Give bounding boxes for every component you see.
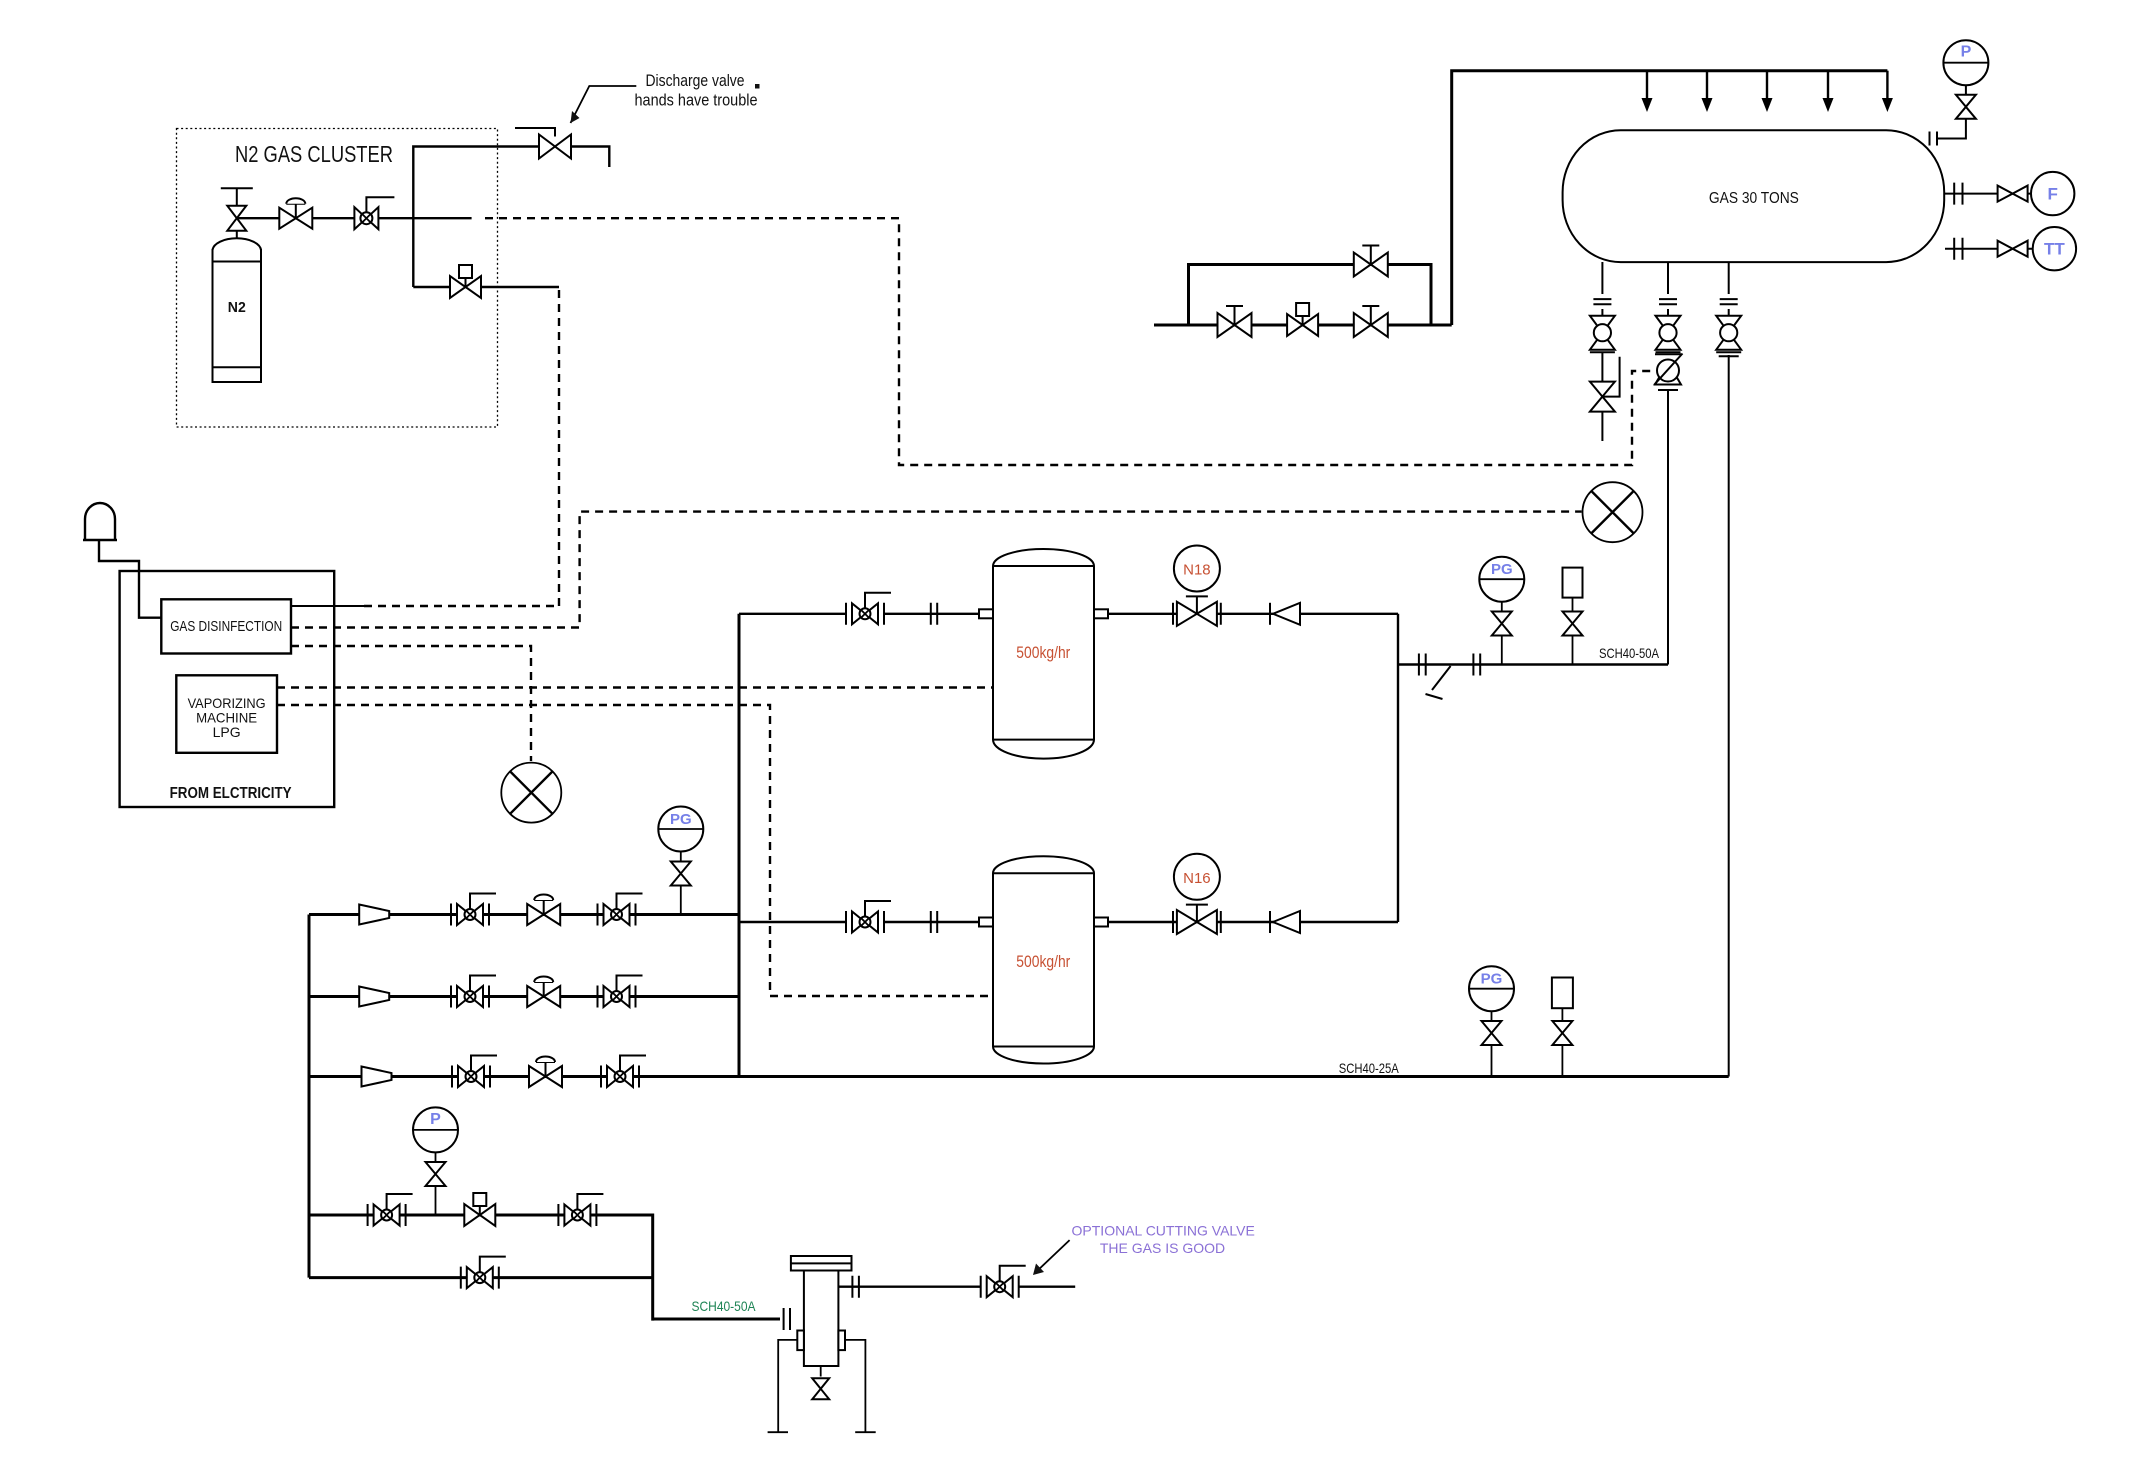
wire P gauge to tank with flange — [1930, 85, 1966, 145]
flange separator outlet — [852, 1276, 859, 1298]
relief valve on drop 1 — [1590, 382, 1615, 412]
globe valve V2 — [279, 198, 312, 229]
N2 gas cluster dotted boundary box — [177, 129, 498, 428]
optional cutting ball valve — [981, 1266, 1026, 1298]
wire tank to TT with flange and valve — [1945, 238, 2033, 260]
cylinder valve V1 with T handle — [221, 188, 253, 231]
wire tank to F with flange and valve — [1945, 183, 2031, 205]
wire top vaporizer inlet — [739, 613, 980, 615]
valve N16 with T stem — [1173, 905, 1221, 934]
wire manifold row 1 — [309, 913, 739, 916]
bypass valve B3 with T handle — [1354, 306, 1388, 337]
valve under row1 PG — [671, 862, 691, 886]
wire tank drop 3 — [1728, 262, 1730, 1077]
wire row1 PG stem — [680, 852, 682, 915]
reducer cone row 1 — [359, 905, 389, 925]
nozzle bottom vessel inlet — [979, 918, 993, 927]
ball valve top inlet — [846, 593, 891, 625]
gas disinfection box — [161, 599, 291, 653]
ball valve row 1 b — [598, 894, 643, 926]
wire vapor collection line — [1398, 614, 1668, 922]
pressure gauge PG row 1 — [658, 807, 703, 852]
alarm horn device — [83, 503, 117, 540]
svg-text:Discharge valve: Discharge valve — [646, 71, 745, 90]
solenoid valve V4 — [450, 265, 481, 298]
storage tank GAS 30 TONS — [1563, 130, 1945, 262]
globe valve row 1 — [527, 895, 560, 926]
spray arrow 3 — [1762, 71, 1773, 112]
svg-text:SCH40-50A: SCH40-50A — [1599, 645, 1660, 661]
svg-text:TT: TT — [2044, 240, 2065, 259]
svg-text:P: P — [430, 1111, 441, 1128]
shutoff globe valve drop 3 — [1716, 316, 1741, 357]
leader arrow to cutting valve — [1033, 1240, 1070, 1275]
flow instrument F — [2031, 172, 2074, 215]
valve N18 with T stem — [1173, 596, 1221, 625]
wire supply line B — [309, 1276, 653, 1279]
flange on drop 2 — [1659, 299, 1677, 304]
svg-text:500kg/hr: 500kg/hr — [1016, 643, 1070, 662]
pressure gauge PG on collection line — [1479, 557, 1524, 602]
svg-text:OPTIONAL CUTTING VALVE: OPTIONAL CUTTING VALVE — [1072, 1223, 1255, 1239]
svg-text:N2: N2 — [228, 299, 246, 316]
shutoff globe valve drop 1 — [1590, 316, 1615, 353]
flange separator inlet — [784, 1308, 790, 1330]
valve under rupture disc — [1563, 612, 1583, 636]
wire dashed signal line from N2 header to tank drop regulator — [485, 218, 1656, 465]
wire tank drop 2 — [1667, 262, 1669, 665]
N2 cylinder — [213, 238, 262, 382]
vaporizing machine LPG box — [176, 675, 277, 753]
vaporizer vessel bottom 500kg/hr — [993, 856, 1094, 1063]
globe valve row 2 — [527, 977, 560, 1008]
solenoid valve line A — [464, 1193, 495, 1226]
reducer cone row 2 — [359, 987, 389, 1007]
wire bypass main line — [1154, 324, 1452, 327]
vaporizer vessel top 500kg/hr — [993, 549, 1094, 759]
self-actuated regulator valve drop 2 — [1654, 354, 1683, 391]
flange top inlet — [931, 603, 937, 625]
check valve top outlet — [1270, 603, 1300, 625]
wire relief valve outlet — [1602, 357, 1619, 441]
wire separator drain — [820, 1366, 822, 1377]
svg-text:N18: N18 — [1183, 562, 1211, 579]
svg-text:P: P — [1961, 44, 1972, 61]
ball valve row 2 b — [598, 976, 643, 1008]
bypass valve B1 with T handle — [1218, 306, 1252, 337]
X-circle vent right — [1583, 482, 1643, 542]
spray arrow 4 — [1823, 71, 1834, 112]
nozzle top vessel inlet — [979, 609, 993, 618]
spray arrow 2 — [1702, 71, 1713, 112]
wire row3 rupture disc stem — [1561, 1008, 1563, 1076]
wire manifold row 2 — [309, 995, 739, 998]
ball valve row 3 a — [452, 1056, 497, 1088]
svg-text:F: F — [2048, 185, 2058, 204]
wire line A gauge stem — [435, 1152, 437, 1215]
svg-text:500kg/hr: 500kg/hr — [1016, 952, 1070, 971]
wire rupture disc stem — [1572, 598, 1574, 665]
flange bottom inlet — [931, 911, 937, 933]
wire dashed signal line from gas disinfection to X-circle right — [291, 512, 1582, 628]
ball valve line A b — [558, 1194, 603, 1226]
svg-text:N16: N16 — [1183, 870, 1211, 887]
flange on drop 1 — [1593, 299, 1611, 304]
wire cylinder stub — [236, 231, 238, 239]
ball valve bottom inlet — [846, 901, 891, 933]
ball valve line A a — [368, 1194, 413, 1226]
valve under PG — [1492, 612, 1512, 636]
shutoff globe valve drop 2 — [1656, 316, 1681, 353]
wire manifold collector riser — [738, 614, 741, 1077]
pressure gauge PG on row 3 — [1469, 966, 1514, 1011]
wire bypass loop — [1189, 265, 1432, 326]
reducer cone row 3 — [362, 1067, 392, 1087]
wire signal line gas disinfection to N2 branch — [291, 605, 364, 607]
svg-text:PG: PG — [1481, 971, 1503, 988]
svg-text:SCH40-25A: SCH40-25A — [1339, 1060, 1400, 1076]
valve under row3 rupture disc — [1552, 1021, 1572, 1045]
wire row3 PG stem — [1491, 1011, 1493, 1076]
svg-text:LPG: LPG — [213, 724, 241, 740]
wire dashed signal line vaporizing machine to top vaporizer — [277, 686, 992, 688]
ball valve row 3 b — [601, 1056, 646, 1088]
ball valve line B — [461, 1257, 506, 1289]
svg-text:hands have trouble: hands have trouble — [635, 91, 758, 110]
wire supply line A — [309, 1215, 653, 1321]
svg-text:N2 GAS CLUSTER: N2 GAS CLUSTER — [235, 141, 393, 167]
svg-text:GAS 30 TONS: GAS 30 TONS — [1709, 190, 1799, 207]
discharge valve — [515, 128, 571, 159]
instrument circle N18 — [1174, 546, 1220, 592]
leader arrow to discharge valve — [571, 86, 637, 123]
svg-text:THE GAS IS GOOD: THE GAS IS GOOD — [1100, 1240, 1225, 1256]
pressure gauge P line A — [413, 1107, 458, 1152]
ball valve row 2 a — [451, 976, 496, 1008]
ball valve V3 — [354, 197, 394, 229]
gas filter separator vessel — [768, 1256, 876, 1432]
instrument circle N16 — [1174, 854, 1220, 900]
globe valve row 3 — [529, 1057, 562, 1088]
wire bottom vaporizer outlet — [1107, 921, 1398, 923]
pressure gauge P on tank — [1943, 40, 1988, 85]
svg-text:GAS DISINFECTION: GAS DISINFECTION — [170, 618, 282, 635]
bypass valve B2 with square actuator — [1287, 303, 1318, 336]
wire manifold row 3 SCH40-25A — [309, 1075, 1729, 1078]
temperature instrument TT — [2033, 227, 2076, 270]
valve under P gauge — [1956, 95, 1976, 119]
wire cylinder bank feed riser — [308, 915, 311, 1278]
wire line to separator — [653, 1318, 780, 1321]
ball valve row 1 a — [451, 894, 496, 926]
rupture disc device — [1563, 568, 1583, 598]
wire N2 lower branch — [413, 286, 559, 288]
wire discharge outlet stub — [571, 147, 609, 168]
valve under row3 PG — [1482, 1021, 1502, 1045]
wire top vaporizer outlet — [1107, 613, 1398, 615]
wire horn to gas disinfection — [99, 540, 161, 618]
wire N2 main header — [237, 217, 472, 219]
wire tank drop 1 — [1601, 262, 1603, 382]
bypass top valve B4 with T handle — [1354, 246, 1388, 277]
wire separator outlet — [838, 1285, 1075, 1287]
check valve bottom outlet — [1270, 911, 1300, 933]
valve under line A gauge — [426, 1162, 446, 1186]
spray arrow 1 — [1642, 71, 1653, 112]
svg-text:SCH40-50A: SCH40-50A — [692, 1298, 757, 1314]
flange on drop 3 — [1720, 299, 1738, 304]
wire bottom vaporizer inlet — [739, 921, 980, 923]
drain valve under separator — [812, 1378, 829, 1399]
spray arrow 5 — [1882, 71, 1893, 112]
svg-text:FROM ELCTRICITY: FROM ELCTRICITY — [170, 785, 292, 802]
wire PG stem — [1501, 602, 1503, 665]
nozzle top vessel outlet — [1094, 609, 1108, 618]
wire tank spray header — [1452, 71, 1888, 325]
wire riser to discharge line — [413, 147, 539, 288]
wire dashed signal line gas disinfection to X-circle left — [291, 646, 531, 761]
nozzle bottom vessel outlet — [1094, 918, 1108, 927]
from electricity enclosure box — [120, 571, 335, 807]
flange pair with strainer on collection line — [1419, 654, 1480, 700]
rupture disc device row 3 — [1552, 978, 1573, 1009]
X-circle vent left — [501, 763, 561, 823]
svg-text:PG: PG — [670, 811, 692, 828]
svg-text:PG: PG — [1491, 561, 1513, 578]
wire dashed signal line vaporizing machine to bottom vaporizer — [277, 705, 992, 996]
